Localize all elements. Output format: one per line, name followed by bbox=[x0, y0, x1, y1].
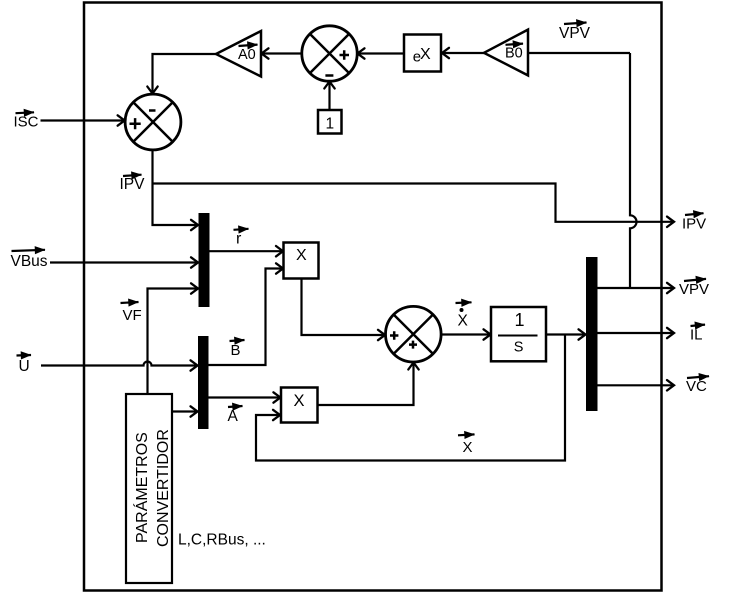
svg-text:X: X bbox=[294, 392, 305, 410]
wire r from bus1 to multiplier X1 bbox=[210, 250, 284, 252]
wire U input with hop bbox=[41, 362, 198, 366]
multiplier X2 box bbox=[281, 388, 318, 423]
label B bbox=[230, 340, 245, 359]
svg-text:ISC: ISC bbox=[14, 114, 39, 131]
svg-text:A: A bbox=[228, 408, 239, 425]
bus3 demux bar bbox=[586, 257, 598, 411]
svg-text:VPV: VPV bbox=[559, 25, 591, 42]
exponential eX box bbox=[404, 35, 441, 72]
label X state bbox=[458, 434, 475, 456]
label VC output bbox=[686, 376, 709, 395]
multiplier M1 circle bbox=[302, 26, 357, 81]
wire X state feedback bbox=[256, 335, 565, 461]
summer S1 circle bbox=[125, 94, 181, 150]
wire parametros output to bus2 bbox=[172, 410, 198, 412]
svg-text:r: r bbox=[236, 231, 242, 248]
wire X2 output to summer S2 bbox=[318, 363, 414, 406]
svg-text:CONVERTIDOR: CONVERTIDOR bbox=[155, 429, 172, 547]
label ISC bbox=[14, 112, 39, 130]
svg-text:1: 1 bbox=[515, 310, 525, 330]
svg-text:X: X bbox=[296, 247, 307, 264]
wire X1 output to summer S2 bbox=[302, 279, 386, 336]
svg-text:L,C,RBus, ...: L,C,RBus, ... bbox=[178, 532, 266, 549]
svg-text:S: S bbox=[514, 340, 524, 356]
svg-text:1: 1 bbox=[326, 116, 335, 133]
wire VF vertical and into bus1 bbox=[148, 289, 199, 395]
border frame bbox=[84, 3, 662, 591]
svg-text:IPV: IPV bbox=[682, 216, 706, 233]
label r bbox=[234, 229, 249, 248]
wire VC output bbox=[598, 384, 675, 386]
svg-text:X: X bbox=[420, 46, 431, 63]
parametros convertidor box bbox=[126, 394, 172, 583]
svg-text:IL: IL bbox=[690, 327, 703, 344]
wire IL output bbox=[598, 332, 675, 334]
svg-text:U: U bbox=[19, 358, 30, 375]
label VF bbox=[121, 302, 142, 324]
svg-text:VBus: VBus bbox=[11, 253, 48, 270]
svg-text:VPV: VPV bbox=[679, 281, 709, 298]
svg-text:X: X bbox=[458, 313, 469, 330]
label VPV top bbox=[559, 23, 591, 43]
bus2 mux bar bbox=[198, 336, 209, 429]
wire eX output to M1 bbox=[358, 52, 405, 54]
wire VBus input bbox=[50, 261, 198, 263]
label U bbox=[17, 355, 32, 375]
wire VPV feedback horizontal to B0 bbox=[528, 52, 630, 54]
label IL output bbox=[690, 325, 705, 344]
label Xdot bbox=[456, 302, 472, 329]
svg-text:X: X bbox=[463, 439, 473, 456]
svg-text:VC: VC bbox=[686, 378, 707, 395]
svg-text:VF: VF bbox=[123, 307, 142, 324]
label VPV output bbox=[679, 279, 709, 298]
constant 1 box bbox=[318, 110, 342, 134]
label IPV inner bbox=[120, 175, 146, 193]
gain B0 triangle bbox=[484, 30, 528, 76]
wire multiplier M1 output to A0 bbox=[262, 52, 303, 54]
wire summer S1 output to bus1 bbox=[153, 150, 199, 225]
svg-text:A0: A0 bbox=[238, 47, 256, 63]
wire summer S2 to integrator bbox=[442, 333, 491, 335]
label IPV output bbox=[682, 213, 706, 232]
multiplier X1 box bbox=[284, 243, 319, 279]
svg-text:B0: B0 bbox=[505, 46, 523, 62]
wire integrator output to bus3 bbox=[546, 333, 586, 335]
wire B from bus2 to multiplier X1 bbox=[209, 269, 284, 366]
svg-text:IPV: IPV bbox=[120, 176, 146, 193]
wire B0 output to eX bbox=[442, 52, 484, 54]
wire constant 1 to M1 bbox=[328, 82, 330, 111]
wire ISC input bbox=[41, 119, 125, 121]
label A bbox=[228, 406, 243, 425]
label VBus bbox=[11, 250, 48, 270]
wire IPV branch to output bbox=[153, 184, 675, 222]
gain A0 triangle bbox=[216, 31, 261, 77]
integrator 1/S box bbox=[491, 307, 546, 361]
wire VPV feedback vertical with hop bbox=[630, 53, 637, 288]
wire VPV output bbox=[598, 287, 675, 289]
wire A0 output to summer S1 bbox=[153, 54, 217, 94]
wire A from bus2 to multiplier X2 bbox=[209, 396, 281, 398]
summer S2 circle bbox=[386, 306, 442, 362]
svg-text:B: B bbox=[231, 342, 241, 359]
bus1 mux bar bbox=[199, 213, 210, 307]
label L,C,RBus bbox=[178, 532, 266, 549]
svg-text:PARÁMETROS: PARÁMETROS bbox=[132, 432, 151, 543]
